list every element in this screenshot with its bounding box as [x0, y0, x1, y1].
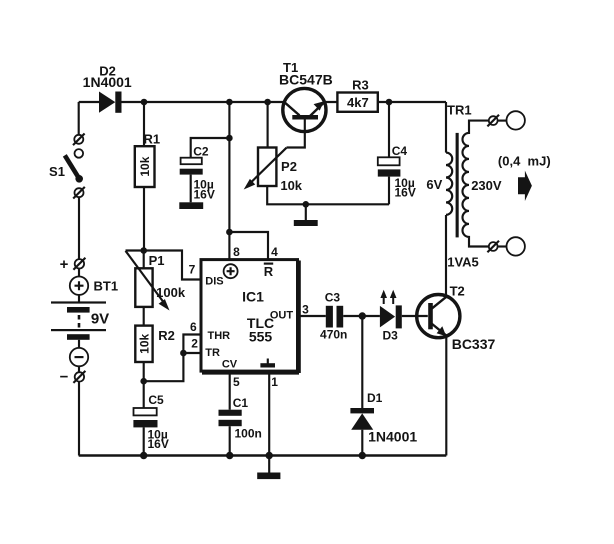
wire T2 emitter to rail	[445, 336, 447, 456]
TR1 secondary winding	[463, 121, 490, 247]
node junction dot (P2/C4 ground tie)	[303, 201, 310, 208]
svg-text:C5: C5	[148, 393, 164, 407]
svg-text:7: 7	[189, 263, 196, 277]
capacitor C4	[378, 102, 401, 204]
wire pin8 and pin4 feed	[229, 232, 268, 260]
node junction dot A (D2 cathode / R1 top)	[141, 99, 148, 106]
pin 8 plus symbol inside IC1	[224, 264, 238, 278]
resistor R1	[135, 102, 155, 251]
potentiometer P1	[126, 251, 170, 326]
svg-text:9V: 9V	[91, 311, 109, 328]
node junction dot (D1 on rail)	[359, 452, 366, 459]
transformer TR1	[446, 102, 489, 247]
node junction dot (supply rail / V+ branch)	[226, 99, 233, 106]
energy output arrow	[518, 171, 532, 201]
wire battery to bottom rail	[78, 381, 80, 455]
svg-text:10k: 10k	[138, 156, 152, 176]
svg-text:10k: 10k	[137, 333, 151, 353]
svg-text:T2: T2	[450, 284, 465, 299]
svg-text:555: 555	[249, 329, 273, 345]
node junction dot (C3 / D1 / D3)	[359, 312, 366, 319]
wire S1 to battery	[78, 197, 80, 259]
svg-text:S1: S1	[49, 164, 65, 179]
node junction dot (R1 bottom / P1 top)	[140, 247, 147, 254]
ground (main, below rail)	[257, 456, 280, 480]
svg-text:+: +	[60, 256, 69, 273]
svg-text:1VA5: 1VA5	[447, 254, 479, 269]
node junction dot (pin1 on rail)	[266, 452, 273, 459]
svg-text:1N4001: 1N4001	[83, 74, 132, 90]
capacitor C1	[219, 410, 242, 456]
wire supply branch down	[228, 102, 230, 232]
capacitor C5	[133, 381, 157, 455]
svg-text:1: 1	[271, 375, 278, 389]
node junction dot (C1 on rail)	[226, 452, 233, 459]
svg-text:100n: 100n	[235, 427, 262, 441]
node junction dot (C2 tap)	[226, 135, 233, 142]
node junction dot (R3 / C4 / TR1 feed)	[386, 99, 393, 106]
svg-text:3: 3	[302, 302, 309, 316]
transistor T1 BC547B	[283, 88, 326, 147]
svg-text:5: 5	[233, 375, 240, 389]
node junction dot (R2 bottom / C5 / TR net)	[140, 378, 147, 385]
svg-text:OUT: OUT	[270, 309, 294, 321]
svg-text:P2: P2	[281, 159, 297, 174]
wire top supply rail left segment	[79, 101, 99, 103]
wire IC1 pin 3 OUT to C3	[298, 315, 326, 317]
wire pin 5 down	[229, 372, 231, 410]
output terminal top (plug + socket)	[487, 111, 525, 129]
wire top supply rail middle segment	[122, 101, 285, 103]
svg-text:8: 8	[233, 245, 240, 259]
potentiometer P2	[244, 148, 389, 205]
pin 4 reset Rbar inside IC1	[264, 264, 274, 279]
svg-text:2: 2	[191, 337, 198, 351]
svg-text:TR: TR	[205, 347, 220, 359]
svg-text:THR: THR	[208, 330, 231, 342]
svg-text:R2: R2	[158, 328, 175, 343]
diode D1	[350, 316, 374, 456]
wire TR1 primary feed	[445, 102, 447, 153]
svg-text:−: −	[60, 369, 69, 386]
LED D3	[380, 290, 428, 329]
ground (C2)	[179, 202, 203, 209]
node junction dot (C5 on rail)	[140, 452, 147, 459]
battery BT1	[51, 258, 106, 383]
svg-text:C1: C1	[233, 396, 249, 410]
svg-text:D3: D3	[383, 328, 399, 342]
svg-text:DIS: DIS	[205, 276, 223, 288]
svg-text:IC1: IC1	[242, 289, 264, 305]
svg-text:P1: P1	[149, 253, 165, 268]
resistor R3	[337, 93, 377, 112]
svg-text:16V: 16V	[148, 437, 169, 451]
TR1 primary winding	[446, 153, 452, 215]
svg-text:R1: R1	[144, 132, 161, 147]
svg-text:BC547B: BC547B	[279, 72, 333, 88]
wire left branch down to S1	[78, 102, 80, 135]
svg-text:C3: C3	[325, 291, 341, 305]
svg-text:BC337: BC337	[452, 336, 496, 352]
TR1 core	[456, 133, 459, 238]
op-amp/timer IC1 TLC555 box	[201, 260, 299, 373]
capacitor C3	[326, 306, 380, 328]
node junction dot (THR-TR tie)	[180, 350, 187, 357]
svg-text:6V: 6V	[426, 177, 442, 192]
pin 1 ground flag inside IC1	[260, 359, 275, 368]
svg-text:230V: 230V	[471, 178, 502, 193]
ground (P2/C4 net)	[294, 204, 318, 226]
svg-text:CV: CV	[222, 359, 238, 371]
svg-text:4: 4	[271, 245, 278, 259]
svg-text:(0,4 mJ): (0,4 mJ)	[498, 154, 551, 169]
wire node to THR/TR pins	[144, 335, 201, 382]
diode D2	[99, 92, 122, 113]
svg-text:1N4001: 1N4001	[368, 429, 417, 445]
switch S1	[65, 134, 85, 199]
svg-text:100k: 100k	[156, 285, 186, 300]
svg-text:470n: 470n	[320, 327, 347, 341]
wire T2 collector to TR1 primary	[445, 215, 447, 297]
svg-text:16V: 16V	[395, 185, 416, 199]
capacitor C2	[180, 138, 230, 202]
resistor R2	[135, 326, 152, 382]
wire pin 1 down	[268, 372, 270, 456]
wire bottom ground rail	[79, 454, 447, 456]
wire node to IC1 pin 7	[144, 251, 201, 280]
svg-text:R3: R3	[352, 78, 369, 93]
svg-text:C4: C4	[392, 144, 408, 158]
svg-text:6: 6	[190, 320, 197, 334]
svg-text:10k: 10k	[280, 178, 302, 193]
svg-text:16V: 16V	[194, 188, 215, 202]
output terminal bottom (plug + socket)	[487, 237, 525, 255]
svg-text:C2: C2	[193, 144, 209, 158]
svg-text:TR1: TR1	[447, 103, 472, 118]
wire top supply rail right segment	[324, 101, 446, 103]
svg-text:D1: D1	[367, 391, 383, 405]
wire P2 top feed	[267, 102, 269, 148]
node junction dot (P2 top on rail)	[264, 99, 271, 106]
node junction dot (pins 8-4 tie)	[226, 229, 233, 236]
transistor T2 BC337	[417, 295, 460, 338]
svg-text:4k7: 4k7	[347, 95, 369, 110]
svg-text:R: R	[264, 264, 274, 279]
svg-text:BT1: BT1	[94, 279, 119, 294]
